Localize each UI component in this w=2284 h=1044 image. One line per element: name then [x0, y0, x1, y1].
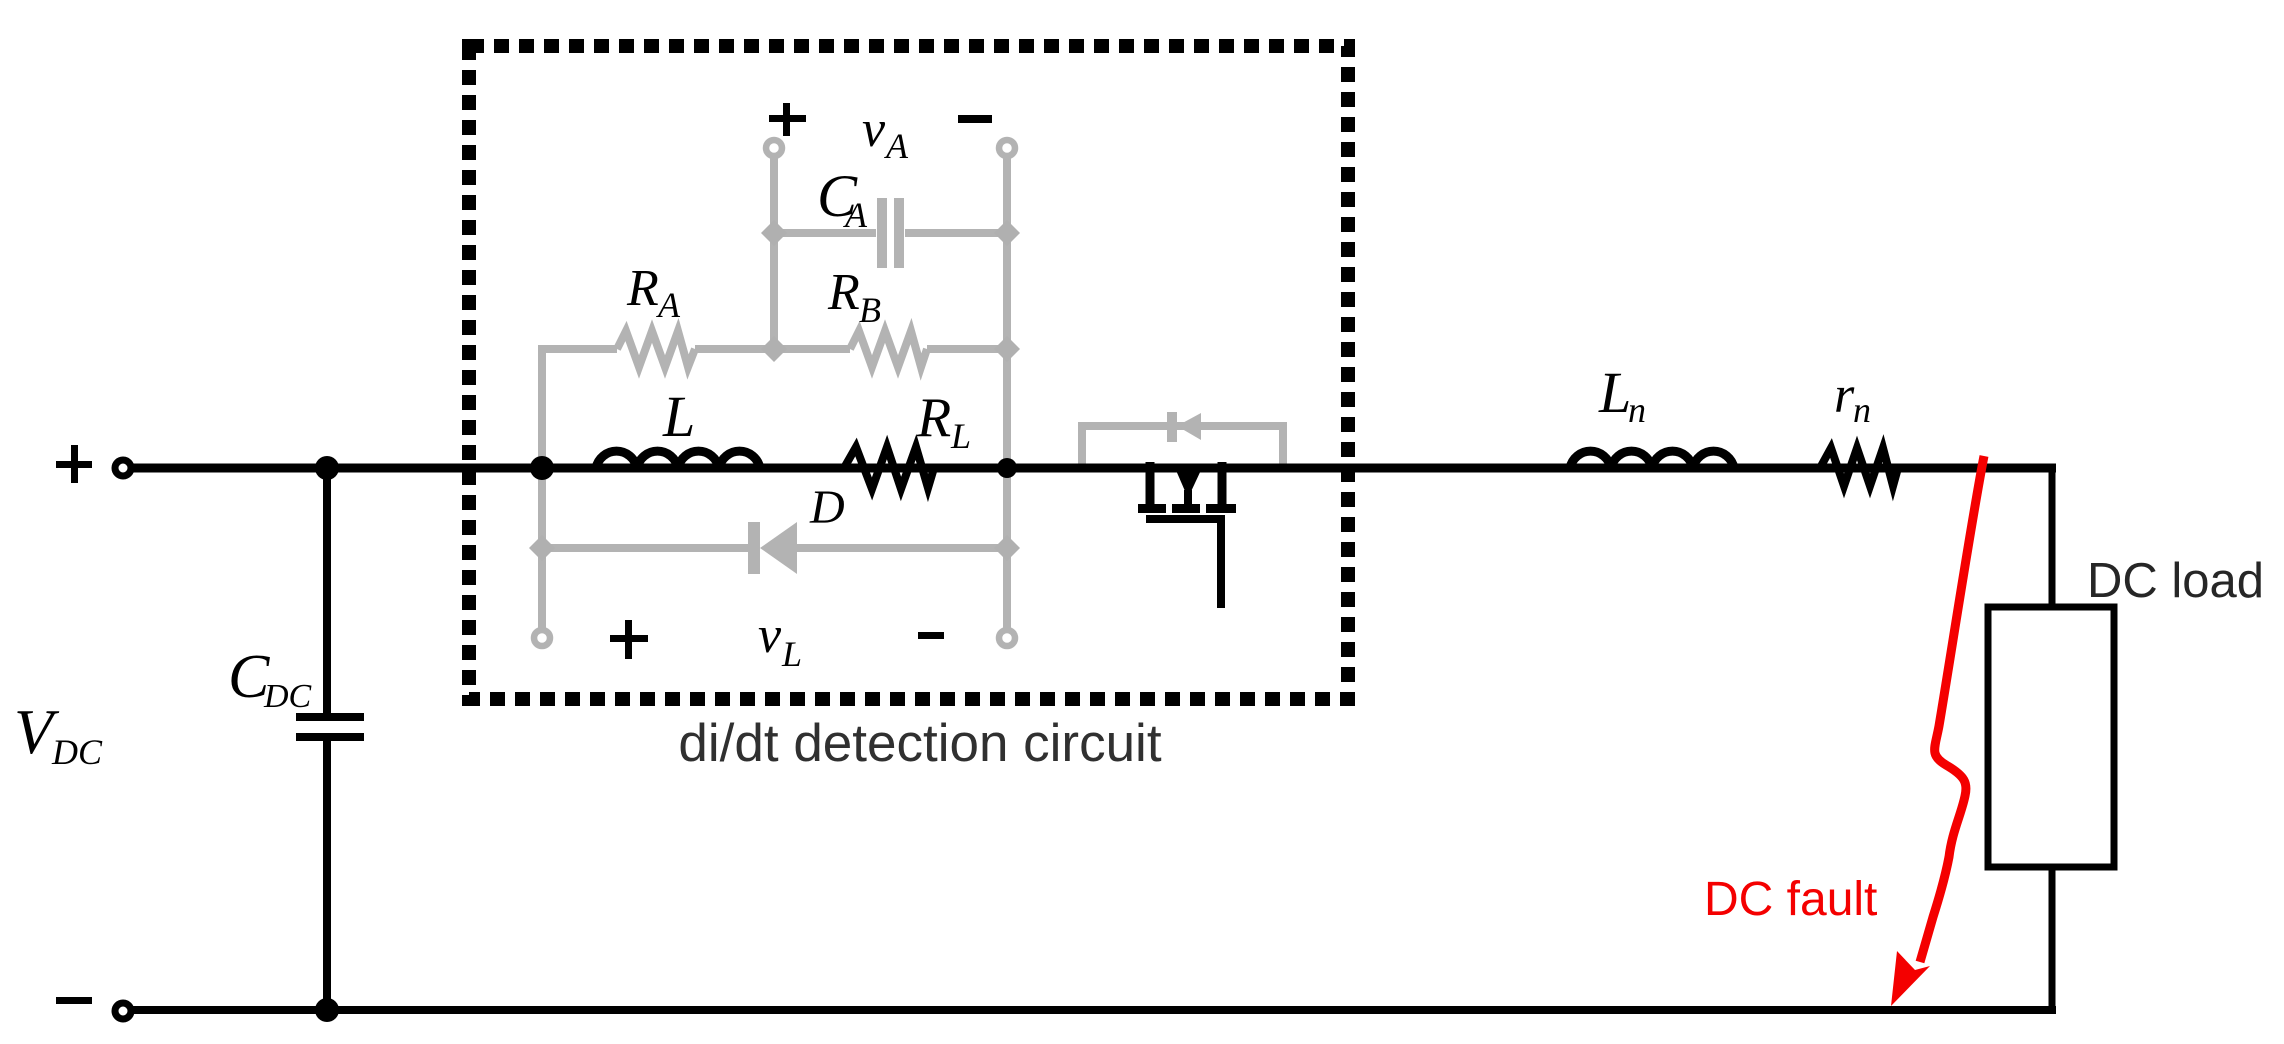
- svg-text:D: D: [809, 481, 845, 534]
- svg-text:n: n: [1853, 390, 1871, 430]
- label + vA: [769, 115, 806, 122]
- inductor Ln: [1570, 451, 1734, 468]
- DC fault arrow: [1920, 456, 1984, 962]
- capacitor CDC: [296, 713, 364, 721]
- wire positive rail: [128, 464, 2056, 473]
- svg-text:L: L: [662, 384, 695, 449]
- inductor L: [596, 451, 760, 468]
- resistor rn: [1820, 448, 1898, 486]
- svg-text:r: r: [1834, 367, 1855, 424]
- svg-text:B: B: [859, 290, 881, 330]
- node diamond CA right: [994, 220, 1020, 246]
- wire diode row right: [797, 544, 1007, 552]
- wire negative rail: [128, 1006, 2056, 1014]
- terminal vL plus: [534, 630, 550, 646]
- wire RA to node: [695, 345, 774, 353]
- terminal vL minus: [999, 630, 1015, 646]
- svg-text:DC fault: DC fault: [1704, 873, 1877, 926]
- freewheel diode loop wire: [1082, 426, 1283, 469]
- svg-text:A: A: [656, 285, 681, 325]
- label - VDC: [56, 997, 92, 1004]
- wire RA row left: [538, 345, 617, 353]
- svg-text:R: R: [827, 264, 860, 321]
- terminal + VDC: [115, 460, 131, 476]
- wire diode row left: [542, 544, 749, 552]
- svg-text:DC: DC: [51, 732, 103, 772]
- capacitor CA: [877, 198, 887, 268]
- resistor RB: [850, 331, 927, 367]
- label - vA: [958, 115, 992, 123]
- gray middle vertical wire: [770, 156, 778, 349]
- gray right leg wire: [1003, 156, 1011, 629]
- dashed box di/dt detection circuit: [469, 46, 1348, 699]
- resistor RL: [844, 447, 934, 489]
- node box entry: [530, 456, 554, 480]
- terminal vA minus: [999, 140, 1015, 156]
- MOSFET gate bar: [1146, 515, 1225, 523]
- wire CA row left: [774, 229, 876, 237]
- svg-text:L: L: [1598, 360, 1631, 425]
- svg-text:L: L: [781, 634, 802, 674]
- terminal vA plus: [766, 140, 782, 156]
- node after RL: [997, 458, 1017, 478]
- terminal - VDC: [115, 1003, 131, 1019]
- MOSFET body arrow: [1175, 468, 1202, 498]
- node diamond RB right: [994, 336, 1020, 362]
- wire CA row right: [905, 229, 1007, 237]
- svg-text:di/dt detection circuit: di/dt detection circuit: [678, 714, 1161, 773]
- DC load box: [1988, 607, 2114, 867]
- wire CDC branch top: [323, 468, 331, 714]
- wire RB to right leg: [927, 345, 1007, 353]
- label + VDC: [56, 461, 92, 468]
- node diamond D left: [529, 535, 555, 561]
- node diamond D right: [994, 535, 1020, 561]
- wire node to RB: [774, 345, 850, 353]
- freewheel diode: [1167, 412, 1177, 442]
- svg-text:R: R: [626, 260, 659, 317]
- MOSFET gate lead: [1217, 523, 1225, 608]
- node diamond CA left: [761, 220, 787, 246]
- gray left leg wire: [538, 349, 546, 629]
- wire CDC branch bottom: [323, 741, 331, 1010]
- node CDC top: [315, 456, 339, 480]
- label + vL: [610, 635, 648, 642]
- MOSFET channel pads: [1138, 504, 1166, 513]
- wire into DC load: [2049, 464, 2056, 607]
- node CDC bottom: [315, 998, 339, 1022]
- svg-text:DC: DC: [263, 678, 312, 715]
- MOSFET source lead: [1218, 462, 1227, 505]
- MOSFET drain lead: [1146, 462, 1155, 505]
- svg-text:n: n: [1628, 390, 1646, 430]
- label - vL: [918, 632, 944, 639]
- svg-text:R: R: [916, 387, 951, 449]
- svg-text:v: v: [862, 101, 886, 158]
- svg-text:A: A: [884, 126, 909, 166]
- svg-text:L: L: [950, 416, 971, 456]
- diode D: [748, 522, 760, 574]
- svg-text:v: v: [758, 607, 782, 664]
- resistor RA: [617, 331, 695, 367]
- wire DC load bottom: [2049, 867, 2056, 1010]
- svg-text:DC load: DC load: [2087, 554, 2264, 608]
- svg-text:A: A: [843, 195, 868, 235]
- node diamond RA RB: [761, 336, 787, 362]
